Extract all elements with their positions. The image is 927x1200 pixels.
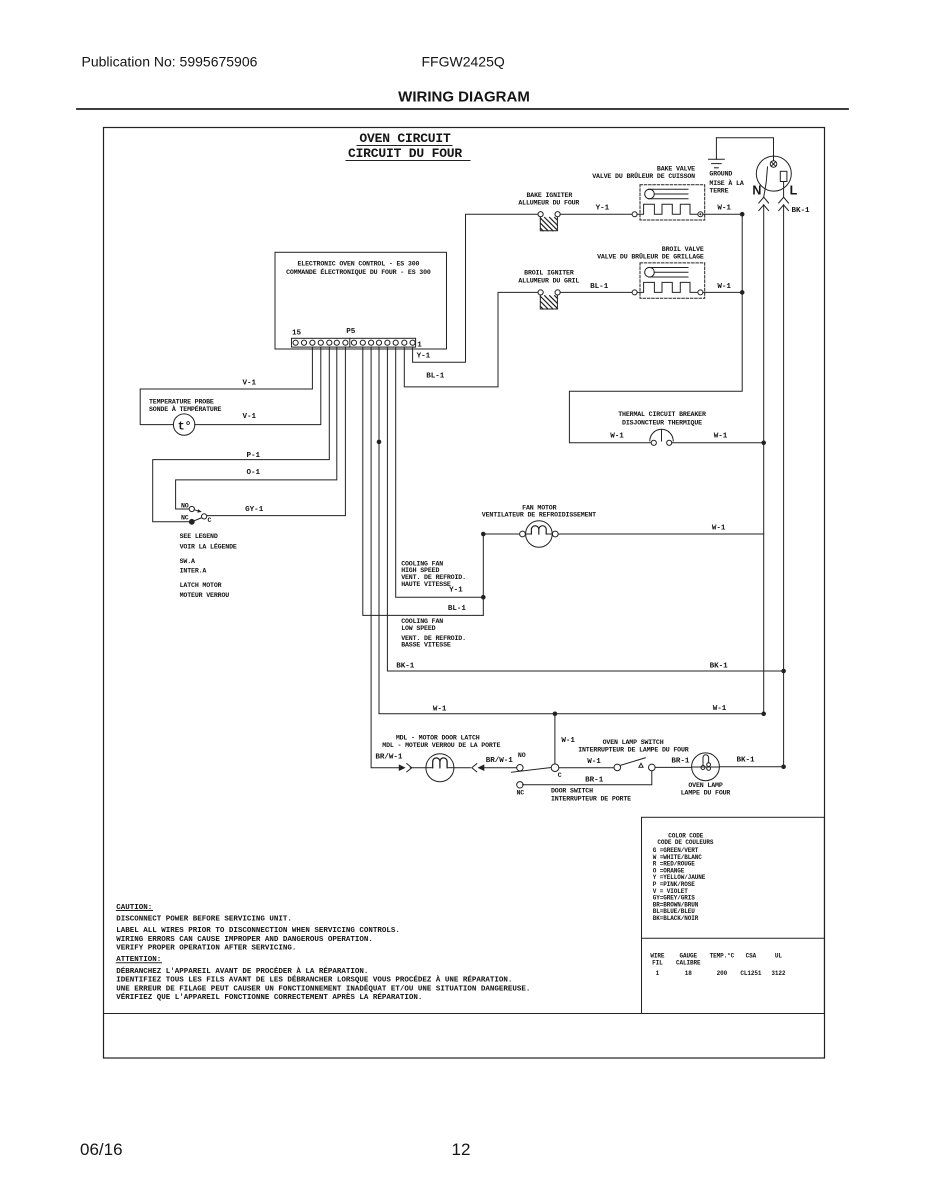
svg-text:W-1: W-1 (433, 706, 447, 714)
bake valve coil circle (645, 189, 655, 199)
broil valve left terminal (632, 290, 637, 295)
svg-text:MDL - MOTEUR VERROU DE LA PORT: MDL - MOTEUR VERROU DE LA PORTE (382, 742, 500, 749)
svg-text:IDENTIFIEZ TOUS LES FILS AVANT: IDENTIFIEZ TOUS LES FILS AVANT DE LES DÉ… (116, 976, 512, 985)
svg-text:BL-1: BL-1 (426, 373, 445, 381)
wire W-1 drop to door switch C (554, 714, 556, 764)
svg-text:BK-1: BK-1 (710, 663, 729, 671)
svg-text:NO: NO (181, 502, 189, 509)
wire BL-1 pin2 to broil igniter (404, 292, 538, 387)
svg-text:CALIBRE: CALIBRE (676, 959, 701, 966)
svg-text:WIRING DIAGRAM: WIRING DIAGRAM (398, 89, 530, 106)
bake valve left terminal (632, 212, 637, 217)
svg-text:MISE À LA: MISE À LA (709, 179, 743, 187)
svg-text:FIL: FIL (652, 959, 663, 966)
wire Y-1 pin3 to fan feed node (396, 347, 484, 597)
svg-text:TEMP.°C: TEMP.°C (710, 953, 735, 960)
svg-text:Y-1: Y-1 (596, 205, 610, 213)
svg-text:Y-1: Y-1 (449, 587, 463, 595)
svg-text:BROIL IGNITER: BROIL IGNITER (524, 270, 574, 277)
wire bake igniter to bake valve (560, 213, 632, 215)
power entry receptacle P1 (756, 156, 791, 191)
wire W-1 bake valve to node (703, 213, 742, 215)
pin 4 (385, 340, 390, 345)
svg-text:THERMAL CIRCUIT BREAKER: THERMAL CIRCUIT BREAKER (618, 411, 706, 418)
svg-text:UNE ERREUR DE FILAGE PEUT CAUS: UNE ERREUR DE FILAGE PEUT CAUSER UN FONC… (116, 984, 530, 993)
broil valve dashed box (640, 263, 705, 298)
wire breaker to N bus (672, 442, 764, 444)
temperature probe RT1 (173, 414, 194, 435)
svg-text:W-1: W-1 (561, 737, 575, 745)
pin 2 (402, 340, 407, 345)
door switch C contact (551, 764, 559, 772)
svg-text:06/16: 06/16 (80, 1140, 123, 1159)
svg-text:LABEL ALL WIRES PRIOR TO DISCO: LABEL ALL WIRES PRIOR TO DISCONNECTION W… (116, 927, 400, 935)
svg-text:1: 1 (417, 342, 422, 350)
latch switch SW.A blade (194, 518, 201, 521)
connector chevron right (454, 767, 470, 769)
pin 13 (310, 340, 315, 345)
svg-text:W-1: W-1 (717, 283, 731, 291)
svg-text:MDL - MOTOR DOOR LATCH: MDL - MOTOR DOOR LATCH (396, 735, 480, 742)
wire fan feed vertical (482, 534, 484, 615)
svg-text:V-1: V-1 (243, 380, 257, 388)
svg-text:NC: NC (181, 515, 189, 522)
svg-text:BK-1: BK-1 (792, 207, 811, 215)
latch switch SW.A C contact (202, 514, 207, 519)
oven lamp switch throw marker (639, 763, 643, 767)
svg-text:W-1: W-1 (712, 525, 726, 533)
svg-text:SONDE À TEMPÉRATURE: SONDE À TEMPÉRATURE (149, 405, 222, 413)
svg-text:MOTEUR VERROU: MOTEUR VERROU (180, 592, 230, 599)
ground pin symbol (770, 161, 777, 168)
wire GY-1 latch switch C to pin9 (207, 347, 346, 516)
junction bake W-1 (740, 212, 745, 217)
header rule line (77, 108, 848, 110)
svg-text:200: 200 (717, 970, 728, 977)
door switch blade (512, 768, 551, 773)
svg-text:W-1: W-1 (717, 205, 731, 213)
neutral prong (764, 167, 768, 197)
svg-text:CL1251: CL1251 (740, 970, 762, 977)
broil valve right terminal (698, 290, 703, 295)
svg-text:INTERRUPTEUR DE PORTE: INTERRUPTEUR DE PORTE (551, 796, 631, 803)
svg-text:VALVE DU BRÛLEUR DE CUISSON: VALVE DU BRÛLEUR DE CUISSON (592, 171, 695, 180)
wire V-1 probe right to pin12 (195, 347, 321, 425)
svg-text:ALLUMEUR DU FOUR: ALLUMEUR DU FOUR (518, 200, 579, 207)
svg-text:t°: t° (178, 420, 192, 433)
pin 15 (293, 340, 298, 345)
svg-text:BAKE VALVE: BAKE VALVE (657, 165, 695, 172)
door switch NO contact (517, 765, 523, 771)
connector arrow left (399, 764, 406, 771)
svg-text:BR-1: BR-1 (585, 776, 604, 784)
wire N bus vertical (763, 205, 765, 714)
pin 11 (327, 340, 332, 345)
pin 7 (360, 340, 365, 345)
svg-text:NO: NO (518, 752, 526, 759)
pin 8 (351, 340, 356, 345)
svg-text:TERRE: TERRE (709, 188, 728, 195)
svg-text:BK-1: BK-1 (396, 663, 415, 671)
connector chevrons L (779, 197, 789, 203)
pin 5 (376, 340, 381, 345)
svg-text:CSA: CSA (746, 953, 757, 960)
wire BR/W-1 pin4 to latch motor (371, 347, 399, 768)
wire broil igniter to broil valve (560, 291, 632, 293)
color code box (642, 817, 825, 1013)
wire lamp switch to lamp (655, 766, 692, 768)
wire Y-1 pin1 to bake igniter (413, 214, 538, 362)
svg-text:HAUTE VITESSE: HAUTE VITESSE (401, 581, 451, 588)
svg-text:VERIFY PROPER OPERATION AFTER: VERIFY PROPER OPERATION AFTER SERVICING. (116, 945, 296, 953)
pin 9 (343, 340, 348, 345)
junction W-1 N bus bottom (761, 712, 766, 717)
svg-text:GY-1: GY-1 (245, 506, 264, 514)
svg-text:ELECTRONIC OVEN CONTROL - ES 3: ELECTRONIC OVEN CONTROL - ES 300 (297, 261, 419, 268)
latch switch SW.A NO contact (189, 506, 194, 511)
ground symbol (715, 138, 717, 160)
electronic oven control U1 box (275, 252, 447, 349)
svg-text:Y-1: Y-1 (417, 353, 431, 361)
svg-text:LAMPE DU FOUR: LAMPE DU FOUR (681, 790, 731, 797)
svg-text:DOOR SWITCH: DOOR SWITCH (551, 788, 593, 795)
svg-text:1: 1 (656, 970, 660, 977)
svg-text:W-1: W-1 (610, 433, 624, 441)
svg-text:BL-1: BL-1 (590, 283, 609, 291)
svg-text:LOW SPEED: LOW SPEED (401, 625, 435, 632)
wire W-1 pin5 to N bus bottom (379, 347, 764, 714)
wire O-1 pin10 to latch switch NO (176, 347, 337, 509)
wire connector to door switch NO (484, 767, 516, 769)
wire P-1 pin11 to latch switch NC (153, 347, 330, 522)
svg-text:DÉBRANCHEZ L'APPAREIL AVANT DE: DÉBRANCHEZ L'APPAREIL AVANT DE PROCÉDER … (116, 967, 368, 976)
oven lamp switch right contact (649, 764, 656, 771)
svg-text:FFGW2425Q: FFGW2425Q (422, 54, 505, 70)
wire W-1 broil valve to node (703, 291, 742, 293)
svg-text:TEMPERATURE PROBE: TEMPERATURE PROBE (149, 399, 214, 406)
svg-text:NC: NC (517, 789, 525, 796)
wire BL-1 pin7 to fan feed (363, 347, 484, 615)
svg-text:W-1: W-1 (587, 758, 601, 766)
svg-text:SW.A: SW.A (180, 558, 195, 565)
svg-text:L: L (790, 184, 798, 198)
svg-text:N: N (752, 184, 761, 198)
svg-text:OVEN LAMP SWITCH: OVEN LAMP SWITCH (603, 739, 664, 746)
latch switch SW.A common pivot (189, 519, 194, 524)
junction lamp L bus (781, 765, 786, 770)
svg-text:Publication No: 5995675906: Publication No: 5995675906 (82, 54, 258, 70)
svg-text:ALLUMEUR DU GRIL: ALLUMEUR DU GRIL (518, 278, 579, 285)
pin 14 (301, 340, 306, 345)
bake igniter hatched body (540, 217, 557, 231)
svg-text:SEE LEGEND: SEE LEGEND (180, 533, 218, 540)
svg-text:BAKE IGNITER: BAKE IGNITER (526, 192, 572, 199)
svg-text:BK-1: BK-1 (736, 757, 755, 765)
wire fan to left terminal (486, 533, 520, 535)
pin 1 (410, 340, 415, 345)
junction BK-1 L bus (781, 669, 786, 674)
bake valve dashed box (640, 185, 705, 220)
svg-text:V-1: V-1 (243, 413, 257, 421)
broil valve coil circle (645, 267, 655, 277)
svg-text:BL-1: BL-1 (448, 605, 467, 613)
svg-text:LATCH MOTOR: LATCH MOTOR (180, 582, 222, 589)
svg-text:P5: P5 (346, 328, 356, 336)
wire V-1 pin13 to temperature probe left (140, 347, 312, 425)
pin 3 (393, 340, 398, 345)
svg-text:3122: 3122 (771, 970, 786, 977)
svg-text:INTERRUPTEUR DE LAMPE DU FOUR: INTERRUPTEUR DE LAMPE DU FOUR (578, 746, 689, 753)
broil valve winding (637, 282, 698, 292)
svg-text:W-1: W-1 (713, 705, 727, 713)
wire BK-1 pin6 to L bus (387, 347, 783, 671)
fan motor M1 (520, 531, 526, 537)
line prong slot (780, 171, 787, 181)
svg-text:GROUND: GROUND (709, 170, 732, 177)
svg-text:WIRING ERRORS CAN CAUSE IMPROP: WIRING ERRORS CAN CAUSE IMPROPER AND DAN… (116, 936, 373, 944)
connector P5 strip (292, 338, 416, 347)
frame bottom divider line (104, 1013, 825, 1015)
wire BR-1 NC to lamp switch contact (523, 771, 652, 785)
junction Y-1 fan feed (481, 595, 486, 600)
svg-text:VALVE DU BRÛLEUR DE GRILLAGE: VALVE DU BRÛLEUR DE GRILLAGE (597, 251, 704, 260)
pin 6 (369, 340, 374, 345)
svg-text:OVEN LAMP: OVEN LAMP (688, 782, 722, 789)
bake valve winding (637, 204, 698, 214)
svg-text:BASSE VITESSE: BASSE VITESSE (401, 642, 451, 649)
svg-text:15: 15 (292, 330, 302, 338)
svg-text:UL: UL (775, 953, 783, 960)
connector chevrons N (759, 197, 769, 203)
oven lamp switch blade (620, 758, 645, 766)
thermal circuit breaker TCO (651, 440, 656, 445)
junction fan feed top (481, 532, 486, 537)
wire fan motor to N bus (558, 533, 764, 535)
junction W-1 door branch (553, 712, 558, 717)
wire W-1 valve bus down to breaker loop (569, 214, 742, 443)
pin 12 (318, 340, 323, 345)
svg-text:DISCONNECT POWER BEFORE SERVIC: DISCONNECT POWER BEFORE SERVICING UNIT. (116, 915, 292, 923)
svg-text:COMMANDE ÉLECTRONIQUE DU FOUR: COMMANDE ÉLECTRONIQUE DU FOUR - ES 300 (286, 268, 431, 276)
wire ground to power entry (716, 138, 773, 161)
svg-text:VENTILATEUR DE REFROIDISSEMENT: VENTILATEUR DE REFROIDISSEMENT (482, 511, 596, 518)
junction dot on W-1 bundle (377, 440, 382, 445)
wire L bus vertical (783, 205, 785, 767)
svg-text:BK=BLACK/NOIR: BK=BLACK/NOIR (653, 915, 699, 922)
wire lamp to L bus (719, 766, 783, 768)
svg-text:BR/W-1: BR/W-1 (375, 753, 403, 761)
svg-text:BR-1: BR-1 (671, 758, 690, 766)
svg-text:12: 12 (452, 1140, 471, 1159)
svg-text:VÉRIFIEZ QUE L'APPAREIL FONCTI: VÉRIFIEZ QUE L'APPAREIL FONCTIONNE CORRE… (116, 993, 422, 1002)
svg-text:BROIL VALVE: BROIL VALVE (662, 246, 704, 253)
diagram border frame (104, 128, 825, 1059)
bake valve right terminal (698, 212, 703, 217)
oven lamp switch left contact (614, 764, 621, 771)
svg-text:DISJONCTEUR THERMIQUE: DISJONCTEUR THERMIQUE (622, 420, 702, 427)
svg-text:BR/W-1: BR/W-1 (486, 757, 514, 765)
svg-text:INTER.A: INTER.A (180, 568, 207, 575)
junction broil W-1 (740, 290, 745, 295)
svg-text:18: 18 (685, 970, 693, 977)
svg-text:C: C (208, 517, 212, 524)
svg-text:W-1: W-1 (714, 433, 728, 441)
junction breaker N bus (761, 441, 766, 446)
svg-text:O-1: O-1 (247, 469, 261, 477)
pin 10 (334, 340, 339, 345)
svg-text:VOIR LA LÉGENDE: VOIR LA LÉGENDE (180, 542, 237, 550)
svg-text:OVEN CIRCUIT: OVEN CIRCUIT (359, 131, 451, 146)
wire door C to lamp switch (559, 767, 614, 769)
oven lamp DS1 (692, 753, 720, 781)
svg-text:CIRCUIT DU FOUR: CIRCUIT DU FOUR (348, 146, 462, 161)
bake igniter terminals (538, 212, 543, 217)
latch motor MDL (426, 754, 454, 782)
svg-text:P-1: P-1 (247, 452, 261, 460)
door switch NC contact (517, 782, 523, 788)
broil igniter terminals (538, 290, 543, 295)
svg-text:CODE DE COULEURS: CODE DE COULEURS (657, 839, 714, 846)
broil igniter hatched body (540, 295, 557, 309)
svg-text:C: C (558, 772, 562, 779)
